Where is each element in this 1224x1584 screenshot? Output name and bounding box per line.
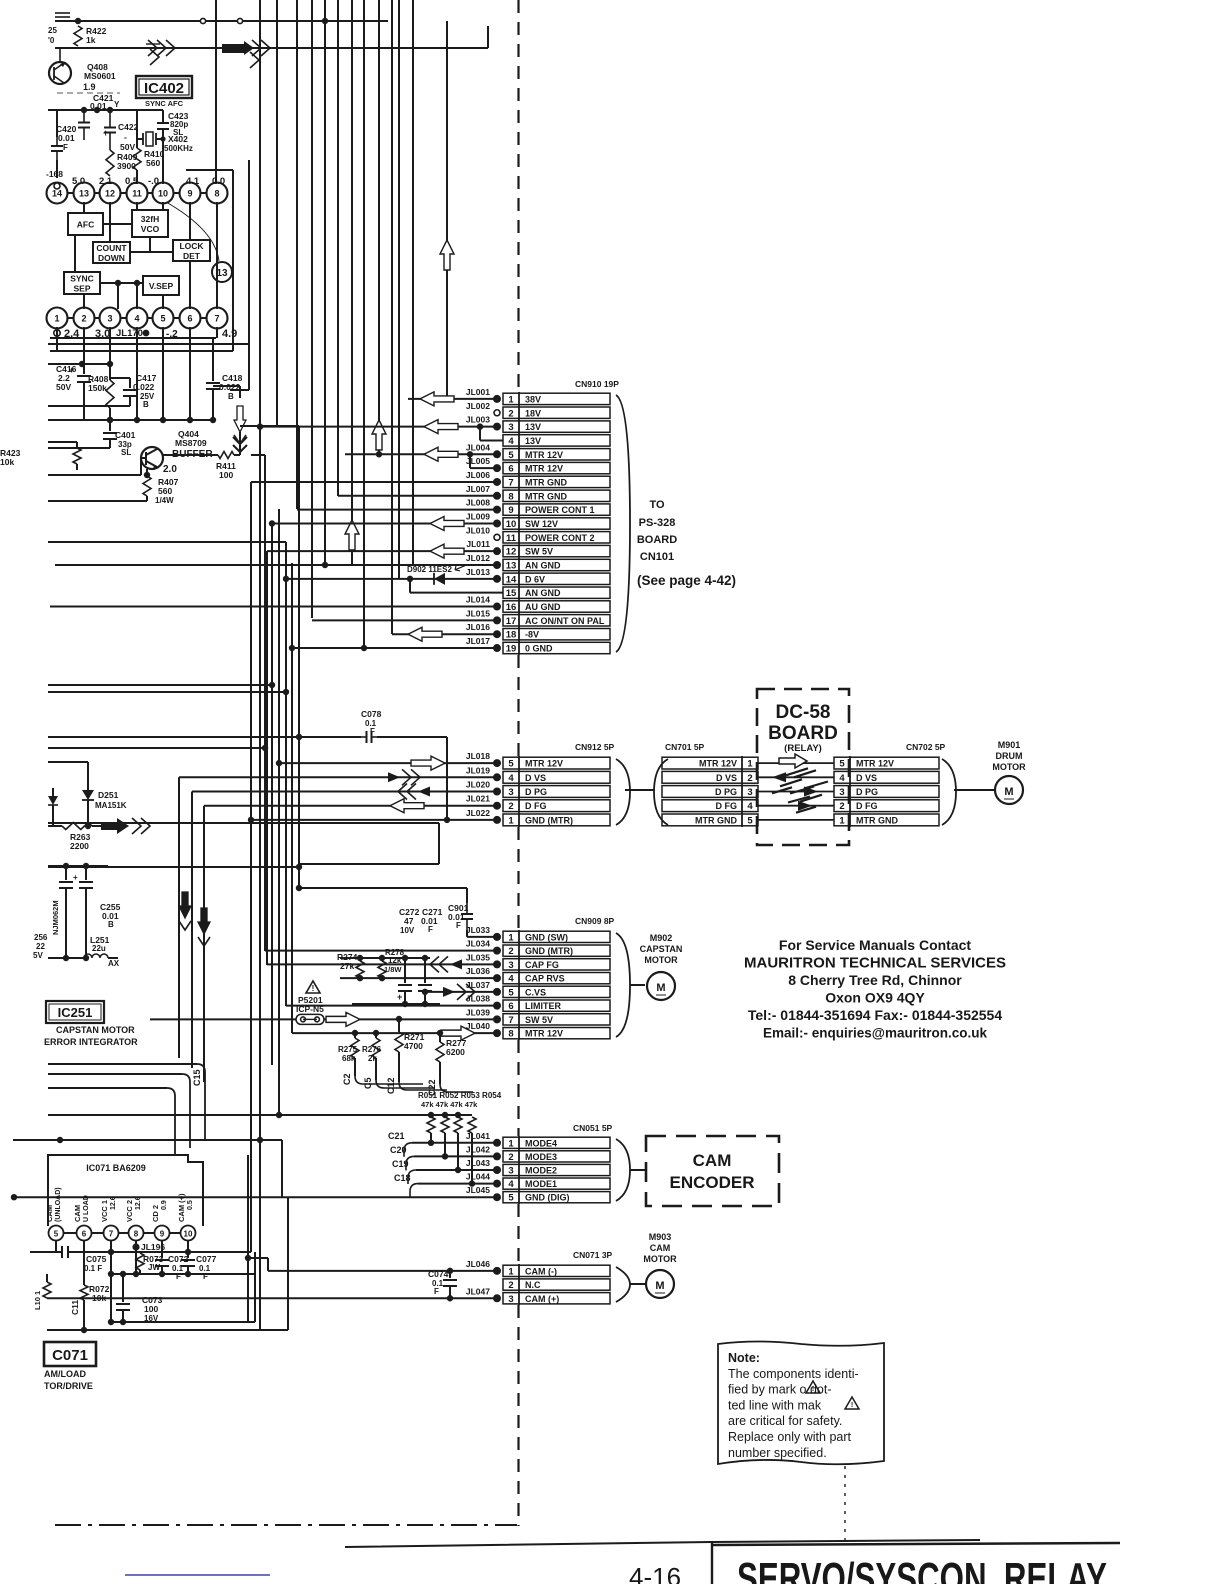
- wire row JL034: [265, 950, 497, 952]
- svg-text:!: !: [851, 1402, 853, 1409]
- svg-text:-.2: -.2: [166, 329, 178, 340]
- svg-text:(See page 4-42): (See page 4-42): [637, 573, 736, 588]
- wire bus vertical x364: [363, 0, 365, 648]
- wire h1322: [108, 1321, 255, 1323]
- motor M902 capstan: [647, 972, 675, 1000]
- svg-text:GND (DIG): GND (DIG): [525, 1193, 570, 1203]
- resistor R409: [106, 150, 114, 176]
- svg-text:3900: 3900: [117, 161, 136, 171]
- svg-text:MOTOR: MOTOR: [643, 1254, 677, 1264]
- svg-text:M: M: [1004, 786, 1013, 798]
- resistor R411: [163, 454, 218, 456]
- resistor R277: [436, 1042, 444, 1062]
- wire rail 2: [55, 47, 488, 49]
- arrow up on 38V line: [440, 240, 454, 270]
- capacitor C416: [83, 364, 85, 374]
- resistor R408: [106, 380, 114, 408]
- wire C418 to arrow: [213, 385, 240, 387]
- IC402 pin row 1-7: [47, 308, 68, 329]
- svg-text:L10 1: L10 1: [33, 1291, 42, 1310]
- svg-text:2.0: 2.0: [163, 464, 177, 475]
- IC251 label box: [46, 1001, 104, 1023]
- svg-text:SYNC: SYNC: [70, 274, 94, 284]
- svg-text:6: 6: [187, 314, 192, 324]
- svg-text:2: 2: [508, 946, 513, 957]
- svg-text:D251: D251: [98, 790, 119, 800]
- svg-text:MOTOR: MOTOR: [644, 955, 678, 965]
- svg-text:F: F: [434, 1287, 439, 1296]
- svg-text:3: 3: [747, 787, 752, 798]
- wire row JL038: [286, 1005, 497, 1007]
- wire bundle L5: [278, 509, 280, 1115]
- wire pin2 down: [83, 327, 85, 374]
- svg-text:The components identi-: The components identi-: [728, 1367, 859, 1381]
- svg-text:Replace only with part: Replace only with part: [728, 1430, 852, 1444]
- blue underline: [125, 1574, 270, 1576]
- block LOCK DET: [173, 240, 210, 261]
- svg-text:47k 47k 47k 47k: 47k 47k 47k 47k: [421, 1100, 478, 1109]
- svg-text:CAM (-): CAM (-): [525, 1266, 557, 1276]
- svg-text:CN101: CN101: [640, 551, 674, 563]
- svg-text:MAURITRON TECHNICAL SERVICES: MAURITRON TECHNICAL SERVICES: [744, 955, 1006, 972]
- svg-text:F: F: [456, 921, 461, 930]
- svg-text:JL044: JL044: [466, 1172, 490, 1182]
- svg-text:D PG: D PG: [715, 787, 737, 797]
- svg-text:JL013: JL013: [466, 567, 490, 577]
- svg-text:BOARD: BOARD: [637, 534, 677, 546]
- wire row17 AC: [312, 619, 497, 621]
- svg-text:JL034: JL034: [466, 939, 490, 949]
- capacitor C077: [187, 1256, 189, 1258]
- arrow up on bus x379: [372, 420, 386, 450]
- svg-text:(UNLOAD): (UNLOAD): [55, 1187, 62, 1222]
- wire row5 MTR12V: [345, 453, 497, 455]
- svg-text:CAP RVS: CAP RVS: [525, 974, 565, 984]
- svg-text:19: 19: [506, 644, 517, 655]
- wire MODE3: [414, 1155, 497, 1157]
- wire curve C12: [398, 1052, 400, 1082]
- crystal X402: [137, 138, 143, 140]
- svg-text:C071: C071: [52, 1347, 88, 1364]
- wire bus vertical x277: [276, 0, 278, 427]
- capacitor C254 elec: [65, 866, 67, 880]
- svg-text:!: !: [812, 1386, 814, 1393]
- svg-text:IC402: IC402: [144, 80, 184, 97]
- svg-text:C20: C20: [390, 1145, 407, 1155]
- svg-text:560: 560: [146, 158, 160, 168]
- svg-text:-.0: -.0: [148, 176, 159, 187]
- svg-text:'0: '0: [48, 36, 55, 45]
- svg-text:B: B: [108, 920, 114, 929]
- wire row JL040: [292, 1032, 497, 1034]
- svg-text:MTR 12V: MTR 12V: [525, 464, 563, 474]
- svg-text:10k: 10k: [0, 457, 14, 467]
- wire row JL036: [340, 977, 497, 979]
- svg-text:JL170: JL170: [116, 328, 143, 339]
- svg-text:+: +: [103, 128, 108, 138]
- svg-text:C18: C18: [394, 1173, 411, 1183]
- svg-text:2.4: 2.4: [64, 328, 80, 340]
- svg-text:are critical for safety.: are critical for safety.: [728, 1414, 842, 1428]
- svg-text:1/8W: 1/8W: [384, 965, 402, 974]
- svg-text:1: 1: [54, 314, 59, 324]
- svg-text:R276: R276: [362, 1045, 382, 1054]
- svg-text:10: 10: [158, 189, 168, 199]
- svg-text:12.6: 12.6: [110, 1196, 117, 1210]
- svg-text:50V: 50V: [120, 142, 135, 152]
- dotted note pointer: [844, 1466, 846, 1545]
- svg-text:JL015: JL015: [466, 608, 490, 618]
- svg-text:5: 5: [508, 759, 514, 770]
- wire pin9 down: [161, 1241, 163, 1256]
- svg-text:JL007: JL007: [466, 484, 490, 494]
- title box line: [345, 1540, 980, 1547]
- wire row8 MTR GND: [338, 495, 497, 497]
- svg-text:TO: TO: [649, 499, 665, 511]
- svg-text:VCC 2: VCC 2: [125, 1200, 134, 1222]
- svg-text:13V: 13V: [525, 436, 541, 446]
- wire pin row top connect: [68, 192, 74, 194]
- svg-text:0.01: 0.01: [58, 133, 75, 143]
- svg-text:AN GND: AN GND: [525, 561, 561, 571]
- wire row6 jog: [469, 454, 471, 468]
- IC071 block outline: [48, 1155, 203, 1226]
- svg-text:JL037: JL037: [466, 980, 490, 990]
- capacitor C420: [56, 110, 58, 137]
- svg-text:JL001: JL001: [466, 387, 490, 397]
- svg-text:C5: C5: [363, 1077, 373, 1089]
- svg-text:JL012: JL012: [466, 553, 490, 563]
- svg-text:-: -: [124, 132, 127, 142]
- wire CAM plus: [47, 1297, 497, 1299]
- svg-text:0 GND: 0 GND: [525, 644, 553, 654]
- svg-text:1: 1: [508, 1138, 514, 1149]
- capacitor C073: [122, 1274, 124, 1302]
- wire h448: [48, 447, 110, 449]
- wire pin8 down JL196: [135, 1241, 137, 1274]
- svg-text:3: 3: [508, 1166, 513, 1177]
- IC402 pin row 14-8: [47, 183, 68, 204]
- wire pin3 down: [109, 327, 111, 364]
- svg-text:C.VS: C.VS: [525, 987, 546, 997]
- wire v288: [287, 1197, 289, 1330]
- svg-text:Tel:- 01844-351694 Fax:- 01844: Tel:- 01844-351694 Fax:- 01844-352554: [748, 1007, 1002, 1023]
- svg-text:MS0601: MS0601: [84, 71, 116, 81]
- svg-text:C078: C078: [361, 709, 382, 719]
- svg-text:100: 100: [144, 1304, 158, 1314]
- curve pin10 to 13: [166, 202, 219, 261]
- arrow hatched right on rail2: [148, 40, 157, 56]
- svg-text:25: 25: [48, 26, 57, 35]
- svg-text:AX: AX: [108, 959, 120, 968]
- wire pin4 down: [136, 327, 138, 420]
- wire h1330: [47, 1329, 288, 1331]
- JL046 junction: [493, 1267, 501, 1275]
- svg-text:14: 14: [52, 189, 62, 199]
- svg-text:4: 4: [747, 801, 753, 812]
- block COUNT DOWN: [93, 242, 130, 263]
- capacitor C423: [162, 110, 164, 123]
- capacitor C255: [85, 866, 87, 880]
- svg-text:MTR 12V: MTR 12V: [699, 759, 737, 769]
- wire bus vertical x325: [324, 0, 326, 565]
- wire h737 C078 net: [48, 736, 361, 738]
- svg-text:13: 13: [506, 561, 517, 572]
- capacitor C271 cap: [424, 958, 426, 983]
- svg-text:2: 2: [81, 314, 86, 324]
- wire bus vertical x392: [391, 0, 393, 634]
- svg-text:C21: C21: [388, 1131, 405, 1141]
- arrow down JL019 net: [179, 892, 191, 918]
- warning triangle P5201: [306, 981, 320, 993]
- wire curve h1074: [48, 1073, 182, 1075]
- svg-text:1/4W: 1/4W: [155, 496, 174, 505]
- svg-text:CN071 3P: CN071 3P: [573, 1250, 613, 1260]
- svg-text:C074: C074: [428, 1269, 449, 1279]
- wire pin row bottom connect: [68, 317, 74, 319]
- svg-text:ted line with mak: ted line with mak: [728, 1398, 822, 1412]
- svg-text:CD 2: CD 2: [151, 1205, 160, 1222]
- wire bus vertical x352: [351, 0, 353, 565]
- svg-text:SW 5V: SW 5V: [525, 1015, 553, 1025]
- svg-text:CAM: CAM: [650, 1243, 671, 1253]
- svg-text:MODE4: MODE4: [525, 1138, 557, 1148]
- svg-text:2.1: 2.1: [99, 176, 113, 187]
- svg-text:4: 4: [508, 436, 514, 447]
- svg-text:4700: 4700: [404, 1041, 423, 1051]
- dash-dot bottom boundary: [55, 1524, 517, 1526]
- svg-text:150k: 150k: [88, 383, 107, 393]
- wire CAM minus: [248, 1257, 268, 1259]
- svg-text:CN909 8P: CN909 8P: [575, 916, 615, 926]
- bracket CN912: [616, 759, 630, 825]
- svg-text:JL020: JL020: [466, 780, 490, 790]
- svg-text:JL006: JL006: [466, 470, 490, 480]
- block SYNC SEP: [64, 272, 100, 294]
- svg-text:3: 3: [107, 314, 112, 324]
- board DC-58 dashed box: [757, 689, 849, 845]
- capacitor C401: [109, 420, 111, 431]
- wire h762: [48, 761, 88, 763]
- wire row16 AU GND: [50, 606, 497, 608]
- svg-text:SW 5V: SW 5V: [525, 547, 553, 557]
- svg-text:68k: 68k: [342, 1054, 356, 1063]
- svg-text:D PG: D PG: [856, 787, 878, 797]
- svg-text:D FG: D FG: [856, 801, 878, 811]
- svg-text:11: 11: [506, 533, 517, 544]
- IC071 label box: [44, 1342, 96, 1366]
- connector CN909 8P: [503, 931, 610, 942]
- svg-text:7: 7: [508, 477, 513, 488]
- svg-text:256: 256: [34, 933, 48, 942]
- wire bus vertical x447: [446, 21, 448, 399]
- JL033-JL040 junction labels: [493, 933, 501, 941]
- bracket CN909: [616, 933, 630, 1037]
- svg-text:SL: SL: [121, 448, 131, 457]
- resistor R275: [351, 1038, 359, 1058]
- svg-text:JL002: JL002: [466, 401, 490, 411]
- svg-text:NJM062M: NJM062M: [51, 900, 60, 935]
- svg-text:5: 5: [839, 759, 845, 770]
- svg-text:CN910 19P: CN910 19P: [575, 379, 619, 389]
- arrow down JL021 net: [198, 908, 210, 934]
- wire h866 caps: [48, 865, 108, 867]
- wire MODE4: [412, 1142, 497, 1144]
- wire pin10 down: [187, 1241, 189, 1256]
- svg-text:MOTOR: MOTOR: [992, 762, 1026, 772]
- svg-text:JL021: JL021: [466, 794, 490, 804]
- svg-text:5: 5: [508, 1193, 514, 1204]
- svg-text:8: 8: [134, 1230, 139, 1239]
- wire h1004: [352, 1003, 440, 1005]
- capacitor C421: [83, 110, 85, 123]
- capacitor C422: [109, 110, 111, 128]
- svg-text:0.9: 0.9: [161, 1200, 168, 1210]
- svg-text:1: 1: [508, 932, 514, 943]
- svg-text:JL046: JL046: [466, 1259, 490, 1269]
- svg-text:3: 3: [839, 787, 844, 798]
- transistor Q404 buffer: [141, 447, 163, 469]
- svg-text:AFC: AFC: [77, 220, 94, 230]
- wire pin6 down: [83, 1241, 85, 1283]
- svg-text:GND (SW): GND (SW): [525, 932, 568, 942]
- wire bus vertical x338: [337, 0, 339, 496]
- svg-text:0.022: 0.022: [133, 382, 155, 392]
- arrow filled right on rail2: [222, 44, 244, 53]
- note box: [718, 1342, 884, 1465]
- connector CN702 5P: [834, 757, 939, 769]
- svg-text:DRUM: DRUM: [996, 751, 1023, 761]
- svg-text:5: 5: [747, 815, 753, 826]
- wire v248: [247, 1155, 249, 1322]
- svg-text:DOWN: DOWN: [98, 253, 125, 263]
- capacitor C272 cap: [404, 958, 406, 983]
- svg-text:2: 2: [747, 773, 752, 784]
- svg-text:GND (MTR): GND (MTR): [525, 946, 573, 956]
- svg-text:8: 8: [508, 491, 513, 502]
- resistor R276: [372, 1038, 380, 1058]
- svg-text:6: 6: [508, 1001, 513, 1012]
- wire row JL035: [267, 963, 497, 965]
- block V.SEP: [143, 276, 179, 295]
- svg-text:D902 11ES2: D902 11ES2: [407, 565, 452, 574]
- wire C421 rail: [48, 109, 163, 111]
- svg-text:M903: M903: [649, 1232, 672, 1242]
- svg-text:3: 3: [508, 787, 513, 798]
- wire row JL020: [192, 791, 497, 793]
- capacitor C072: [161, 1256, 163, 1258]
- svg-text:9: 9: [160, 1230, 165, 1239]
- svg-text:3: 3: [508, 960, 513, 971]
- svg-text:6: 6: [508, 464, 513, 475]
- svg-text:MTR 12V: MTR 12V: [856, 759, 894, 769]
- wire CN909 to M902: [630, 984, 645, 986]
- svg-text:SERVO/SYSCON, RELAY: SERVO/SYSCON, RELAY: [737, 1554, 1107, 1584]
- svg-text:C2: C2: [342, 1073, 352, 1085]
- wire curve C5: [375, 1058, 377, 1080]
- svg-text:8: 8: [508, 1029, 513, 1040]
- svg-text:6200: 6200: [446, 1047, 465, 1057]
- svg-text:2: 2: [508, 801, 513, 812]
- svg-text:IC071 BA6209: IC071 BA6209: [86, 1163, 146, 1173]
- capacitor C418: [212, 338, 214, 381]
- wire h685: [48, 684, 272, 686]
- IC071 pin row 5-10: [49, 1226, 64, 1241]
- svg-text:CN912 5P: CN912 5P: [575, 742, 615, 752]
- resistor R423: [73, 448, 81, 464]
- wire R row feed: [48, 1114, 472, 1116]
- svg-text:DET: DET: [183, 251, 201, 261]
- svg-text:SL: SL: [173, 128, 183, 137]
- svg-text:3: 3: [508, 422, 513, 433]
- svg-text:16: 16: [506, 602, 517, 613]
- svg-text:U LOAD: U LOAD: [83, 1195, 90, 1222]
- svg-text:CN051 5P: CN051 5P: [573, 1123, 613, 1133]
- wire row1 38V: [408, 398, 497, 400]
- svg-text:MODE2: MODE2: [525, 1166, 557, 1176]
- wire pin7 right: [216, 327, 218, 338]
- svg-text:AC ON/NT ON PAL: AC ON/NT ON PAL: [525, 616, 605, 626]
- svg-text:MS8709: MS8709: [175, 438, 207, 448]
- arrow up on bus x352: [345, 520, 359, 550]
- svg-text:-168: -168: [46, 169, 63, 179]
- svg-text:D FG: D FG: [525, 801, 547, 811]
- arrow filled right R263: [101, 818, 129, 834]
- svg-text:22u: 22u: [92, 944, 106, 953]
- wire MODE1: [418, 1183, 497, 1185]
- dashed board boundary: [517, 0, 519, 392]
- wire v282: [281, 1140, 283, 1197]
- JL041-JL045 junction labels: [493, 1139, 501, 1147]
- svg-text:4: 4: [508, 974, 514, 985]
- svg-text:C401: C401: [115, 430, 136, 440]
- svg-text:0.5: 0.5: [125, 176, 139, 187]
- wire h748: [48, 747, 265, 749]
- svg-text:MTR 12V: MTR 12V: [525, 450, 563, 460]
- resistor R263: [48, 825, 62, 827]
- svg-text:0.5: 0.5: [187, 1200, 194, 1210]
- wire GND DIG: [14, 1196, 497, 1198]
- wire h501: [48, 500, 147, 502]
- svg-text:10: 10: [184, 1230, 193, 1239]
- svg-text:JL003: JL003: [466, 415, 490, 425]
- svg-text:9: 9: [508, 505, 513, 516]
- svg-text:R051 R052 R053 R054: R051 R052 R053 R054: [418, 1091, 502, 1100]
- svg-text:N.C: N.C: [525, 1280, 541, 1290]
- svg-text:ENCODER: ENCODER: [669, 1173, 754, 1192]
- svg-text:JL035: JL035: [466, 952, 490, 962]
- wire h406: [48, 405, 130, 407]
- svg-text:PS-328: PS-328: [639, 517, 676, 529]
- svg-text:6: 6: [82, 1230, 87, 1239]
- wire bus vertical x399: [398, 0, 400, 578]
- wire row9 POWER CONT1: [297, 509, 497, 511]
- svg-text:IC251: IC251: [58, 1005, 93, 1020]
- wire pin1 stub: [56, 327, 58, 351]
- svg-text:GND (MTR): GND (MTR): [525, 815, 573, 825]
- svg-text:C075: C075: [86, 1254, 107, 1264]
- svg-text:MODE3: MODE3: [525, 1152, 557, 1162]
- svg-text:13V: 13V: [525, 422, 541, 432]
- svg-text:5.0: 5.0: [72, 176, 85, 187]
- wire h542: [48, 541, 286, 543]
- svg-text:5V: 5V: [33, 951, 43, 960]
- wire h1274: [110, 1273, 254, 1275]
- capacitor C074: [449, 1271, 451, 1278]
- wire row JL022: [251, 819, 497, 821]
- resistors R051-R054 47k: [427, 1117, 435, 1133]
- wire row JL037: [425, 991, 497, 993]
